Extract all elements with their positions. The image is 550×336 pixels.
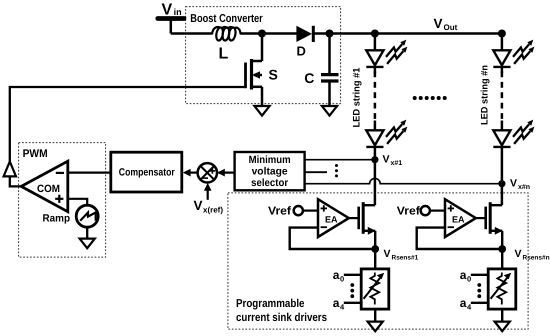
svg-text:Programmable: Programmable <box>236 298 305 310</box>
svg-text:COM: COM <box>37 183 60 195</box>
svg-text:Rsens#n: Rsens#n <box>523 254 550 261</box>
svg-text:C: C <box>304 70 314 86</box>
svg-text:Boost Converter: Boost Converter <box>190 13 263 25</box>
svg-text:D: D <box>297 43 306 58</box>
svg-text:x#n: x#n <box>518 184 530 191</box>
svg-text:Compensator: Compensator <box>119 167 175 179</box>
svg-text:L: L <box>219 46 229 63</box>
svg-text:V: V <box>384 248 391 260</box>
svg-text:V: V <box>162 1 173 18</box>
svg-text:x(ref): x(ref) <box>203 205 223 214</box>
svg-text:S: S <box>269 67 278 83</box>
svg-text:in: in <box>174 7 182 17</box>
svg-text:EA: EA <box>325 215 338 225</box>
svg-text:EA: EA <box>452 215 465 225</box>
svg-text:Minimum: Minimum <box>249 154 291 166</box>
svg-text:Out: Out <box>444 23 458 32</box>
svg-text:a: a <box>460 296 467 310</box>
svg-text:a: a <box>333 296 340 310</box>
svg-text:PWM: PWM <box>23 148 48 160</box>
svg-text:V: V <box>510 177 517 189</box>
svg-text:current sink drivers: current sink drivers <box>236 312 327 324</box>
svg-text:V: V <box>434 16 443 31</box>
svg-text:selector: selector <box>251 177 288 189</box>
svg-text:Rsens#1: Rsens#1 <box>392 254 419 261</box>
svg-text:LED string #n: LED string #n <box>480 65 491 125</box>
svg-text:V: V <box>383 153 390 165</box>
svg-text:V: V <box>515 248 522 260</box>
svg-text:voltage: voltage <box>252 166 288 178</box>
svg-text:a: a <box>333 268 340 282</box>
svg-text:LED string #1: LED string #1 <box>352 67 363 128</box>
svg-text:Ramp: Ramp <box>43 213 71 225</box>
svg-text:Vref: Vref <box>268 205 291 217</box>
svg-text:V: V <box>194 198 203 213</box>
svg-text:a: a <box>460 268 467 282</box>
svg-text:x#1: x#1 <box>391 160 403 167</box>
svg-text:Vref: Vref <box>397 205 420 217</box>
svg-text:0: 0 <box>467 275 471 284</box>
svg-text:0: 0 <box>340 275 344 284</box>
